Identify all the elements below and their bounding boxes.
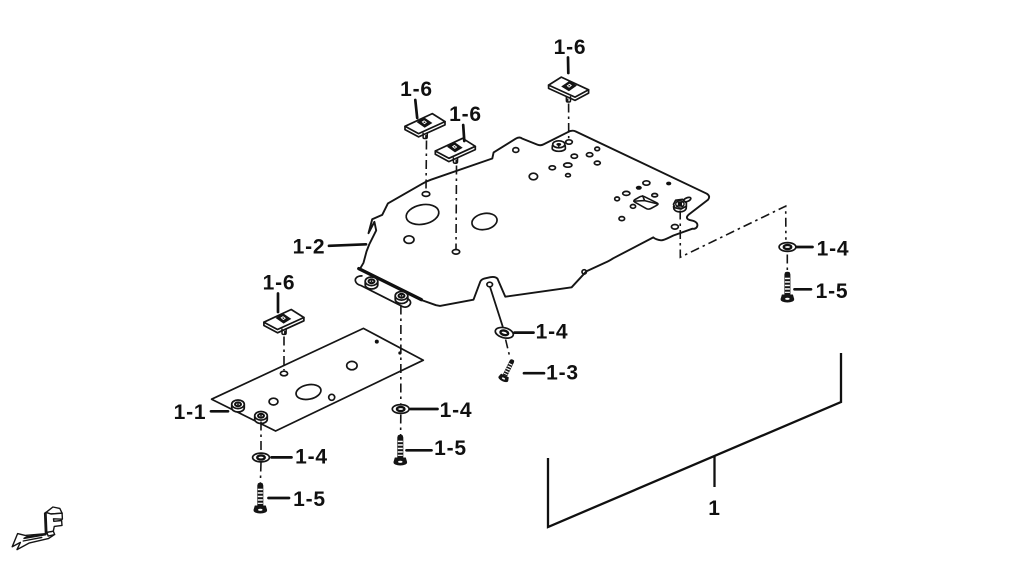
svg-text:1-6: 1-6 xyxy=(554,36,587,59)
svg-text:1-4: 1-4 xyxy=(817,238,850,261)
svg-text:1-5: 1-5 xyxy=(816,280,849,303)
brand logo F with arrow xyxy=(12,507,62,550)
hex nut on plate right xyxy=(674,199,687,211)
svg-text:1: 1 xyxy=(708,497,720,520)
clip nut 1-6 A xyxy=(405,114,445,139)
plate 1-2 clip hole b xyxy=(452,250,459,255)
label 1-5 mid + leader xyxy=(407,449,432,452)
label 1-2 + leader xyxy=(329,244,366,246)
plate 1-1 hole small near bosses xyxy=(269,398,278,405)
tab hole xyxy=(487,282,493,287)
label 1-4 left + leader xyxy=(272,456,292,459)
svg-text:1-6: 1-6 xyxy=(263,272,296,295)
dash-dot hex nut down, diagonal, to washer and bolt xyxy=(680,206,787,272)
label 1-6 A + leader xyxy=(415,100,417,118)
svg-text:1-4: 1-4 xyxy=(536,321,569,344)
plate 1-1 small dot right xyxy=(398,351,401,354)
svg-text:1-1: 1-1 xyxy=(174,401,207,424)
washer 1-4 left xyxy=(253,453,270,462)
bolt 1-5 right xyxy=(781,272,795,303)
plate 1-2 hole: small left xyxy=(404,236,414,244)
plate 1-1 hole small center xyxy=(329,394,335,400)
flange boss front xyxy=(365,277,378,289)
svg-text:1-4: 1-4 xyxy=(295,446,328,469)
bracket part 1 outline xyxy=(548,353,841,527)
bolt 1-5 mid xyxy=(394,435,408,466)
dash-dot clip B to plate xyxy=(455,166,458,250)
washer 1-4 tab (tilted) xyxy=(494,326,514,340)
label 1-4 tab + leader xyxy=(515,331,534,334)
plate 1-2 hole: large oval left xyxy=(404,202,440,227)
label 1-6 B + leader xyxy=(463,125,464,141)
svg-text:1-6: 1-6 xyxy=(400,78,433,101)
hole right of grommet xyxy=(566,140,573,144)
dash-dot 1-1 boss to washer and bolt xyxy=(259,422,262,483)
rectangular slot xyxy=(634,196,658,209)
plate 1-1 large oval xyxy=(295,383,322,402)
label 1-4 right + leader xyxy=(797,246,813,249)
svg-text:1-5: 1-5 xyxy=(434,437,467,460)
plate 1-1 clip hole xyxy=(280,371,287,376)
plate 1-2 bold front edge xyxy=(359,269,422,300)
clip nut 1-6 B xyxy=(435,138,475,163)
bolt 1-5 left xyxy=(253,483,267,514)
dash-dot clip lower-left to plate 1-1 xyxy=(283,337,285,371)
dash-dot washer 1-4 to bolt 1-3 xyxy=(506,340,510,358)
plate 1-1 boss rear xyxy=(255,412,268,424)
dash-dot clip top to plate xyxy=(568,104,570,139)
plate 1-1 xyxy=(212,328,424,431)
svg-text:1-2: 1-2 xyxy=(293,236,326,259)
label 1-1 + leader xyxy=(211,410,228,413)
small holes mid-right cluster xyxy=(615,197,620,201)
bolt 1-3 (tilted small) xyxy=(497,357,517,383)
plate 1-1 hole round xyxy=(347,361,357,369)
plate 1-2 outline xyxy=(360,131,709,306)
clip nut 1-6 top xyxy=(549,77,589,102)
label 1-6 lower left + leader xyxy=(277,294,280,313)
leader part 1 xyxy=(713,457,715,488)
label 1-3 + leader xyxy=(524,372,544,375)
svg-text:1-6: 1-6 xyxy=(449,103,482,126)
tab bolt axis line xyxy=(490,288,503,327)
plate 1-2 hole: large oval center xyxy=(471,211,499,232)
svg-text:1-3: 1-3 xyxy=(546,362,579,385)
plate 1-1 boss front xyxy=(232,400,245,412)
label 1-5 left + leader xyxy=(269,497,290,500)
washer 1-4 right xyxy=(779,243,796,252)
label 1-5 right + leader xyxy=(795,288,812,291)
plate 1-1 small dot xyxy=(375,340,379,344)
plate 1-2 clip hole a xyxy=(422,192,430,197)
svg-text:1-4: 1-4 xyxy=(440,399,473,422)
label 1-4 mid + leader xyxy=(411,408,438,411)
flange boss rear xyxy=(395,292,408,304)
grommet on plate top xyxy=(552,141,565,151)
hole near bottom edge xyxy=(582,270,586,274)
plate 1-2 flange xyxy=(355,276,410,307)
small holes top cluster xyxy=(513,148,519,153)
clip nut 1-6 lower left xyxy=(264,310,304,335)
washer 1-4 mid xyxy=(392,405,409,414)
svg-text:1-5: 1-5 xyxy=(293,488,326,511)
label 1-6 top + leader xyxy=(567,58,570,74)
dash-dot flange boss to washer and bolt xyxy=(400,306,402,436)
dash-dot clip A to plate xyxy=(425,141,428,191)
